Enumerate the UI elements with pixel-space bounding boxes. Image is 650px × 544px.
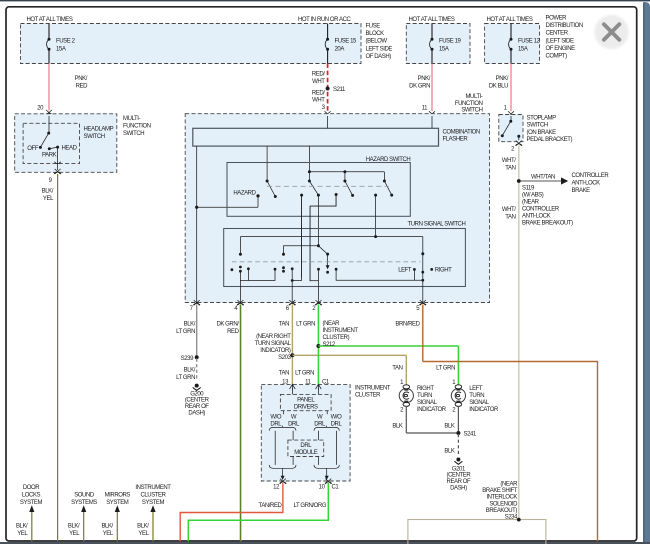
svg-text:DRIVERS: DRIVERS (294, 404, 318, 410)
svg-text:FUSE 19: FUSE 19 (439, 39, 461, 45)
svg-text:TURN: TURN (469, 393, 484, 399)
svg-text:BLK/: BLK/ (184, 322, 196, 328)
svg-text:RED: RED (76, 84, 88, 90)
svg-text:(NEAR: (NEAR (522, 200, 540, 206)
svg-text:(CENTER: (CENTER (447, 473, 472, 479)
svg-text:SWITCH: SWITCH (84, 134, 105, 140)
svg-text:TURN: TURN (417, 393, 432, 399)
svg-text:BLOCK: BLOCK (366, 31, 385, 37)
svg-text:HAZARD: HAZARD (233, 191, 256, 197)
svg-text:SYSTEM: SYSTEM (20, 500, 43, 506)
svg-text:INTERLOCK: INTERLOCK (486, 495, 517, 501)
svg-text:15A: 15A (439, 47, 449, 53)
svg-text:OFF: OFF (27, 146, 38, 152)
svg-text:S119: S119 (522, 186, 535, 192)
svg-text:PEDAL BRACKET): PEDAL BRACKET) (527, 137, 573, 143)
svg-text:MODULE: MODULE (294, 450, 318, 456)
svg-text:TURN SIGNAL SWITCH: TURN SIGNAL SWITCH (408, 221, 466, 227)
svg-text:LT GRN: LT GRN (295, 371, 314, 377)
svg-text:BLK/: BLK/ (184, 368, 196, 374)
svg-text:BLK: BLK (444, 424, 454, 430)
svg-text:REAR OF: REAR OF (185, 404, 209, 410)
svg-text:CLUSTER: CLUSTER (140, 492, 166, 498)
svg-text:STOPLAMP: STOPLAMP (527, 115, 557, 121)
svg-text:BREAKOUT): BREAKOUT) (486, 508, 518, 514)
svg-text:BRAKE BREAKOUT): BRAKE BREAKOUT) (522, 221, 573, 227)
svg-text:S241: S241 (464, 432, 477, 438)
svg-text:REAR OF: REAR OF (447, 479, 471, 485)
svg-text:15A: 15A (518, 47, 528, 53)
svg-text:SWITCH: SWITCH (461, 108, 482, 114)
svg-text:INDICATOR: INDICATOR (417, 407, 447, 413)
svg-text:LOCKS: LOCKS (22, 492, 41, 498)
svg-text:HOT AT ALL TIMES: HOT AT ALL TIMES (409, 17, 455, 23)
svg-text:W/O: W/O (331, 415, 342, 421)
svg-text:CLUSTER: CLUSTER (355, 393, 381, 399)
svg-text:20A: 20A (335, 47, 345, 53)
svg-text:LEFT: LEFT (398, 268, 412, 274)
svg-text:FUNCTION: FUNCTION (123, 123, 151, 129)
svg-text:INSTRUMENT: INSTRUMENT (323, 328, 359, 334)
svg-text:MULTI-: MULTI- (465, 94, 482, 100)
svg-text:POWER: POWER (546, 16, 568, 22)
svg-text:YEL: YEL (138, 531, 149, 537)
svg-text:FLASHER: FLASHER (443, 137, 469, 143)
svg-text:(W/ ABS): (W/ ABS) (522, 193, 544, 199)
svg-text:FUSE 12: FUSE 12 (518, 39, 540, 45)
svg-text:WHT/TAN: WHT/TAN (531, 175, 555, 181)
svg-text:SYSTEM: SYSTEM (106, 500, 129, 506)
svg-text:C1: C1 (332, 485, 340, 491)
svg-text:OF ENGINE: OF ENGINE (546, 46, 576, 52)
svg-text:(NEAR: (NEAR (323, 321, 341, 327)
svg-text:LT GRN: LT GRN (176, 375, 195, 381)
svg-text:DK GRN/: DK GRN/ (216, 322, 239, 328)
svg-text:WHT/: WHT/ (502, 158, 516, 164)
svg-text:MIRRORS: MIRRORS (105, 493, 131, 499)
svg-text:TAN: TAN (505, 165, 515, 171)
svg-text:DRL: DRL (288, 421, 300, 427)
svg-text:CENTER: CENTER (546, 31, 569, 37)
svg-text:(BELOW: (BELOW (366, 39, 388, 45)
svg-text:TAN: TAN (505, 214, 515, 220)
svg-text:(NEAR: (NEAR (500, 482, 518, 488)
svg-text:BLK/: BLK/ (42, 189, 54, 195)
svg-text:PNK/: PNK/ (496, 76, 509, 82)
svg-text:RIGHT: RIGHT (417, 386, 434, 392)
svg-text:RED/: RED/ (312, 72, 325, 78)
svg-text:WHT: WHT (312, 98, 325, 104)
svg-text:BRAKE: BRAKE (572, 188, 591, 194)
svg-text:HOT AT ALL TIMES: HOT AT ALL TIMES (27, 17, 73, 23)
svg-text:RIGHT: RIGHT (435, 268, 452, 274)
svg-text:LEFT: LEFT (469, 386, 483, 392)
svg-text:COMPT): COMPT) (546, 54, 568, 60)
svg-text:15A: 15A (56, 47, 66, 53)
svg-text:DK GRN: DK GRN (409, 84, 430, 90)
svg-text:COMBINATION: COMBINATION (443, 129, 480, 135)
svg-text:DOOR: DOOR (23, 485, 40, 491)
svg-text:BLK/: BLK/ (101, 524, 113, 530)
svg-text:FUSE 2: FUSE 2 (56, 39, 76, 45)
svg-text:SYSTEM: SYSTEM (142, 500, 165, 506)
svg-text:BLK/: BLK/ (16, 524, 28, 530)
svg-text:S211: S211 (333, 87, 346, 93)
svg-text:PNK/: PNK/ (75, 76, 88, 82)
svg-text:SIGNAL: SIGNAL (469, 400, 490, 406)
svg-text:INDICATOR: INDICATOR (469, 407, 499, 413)
svg-text:TAN: TAN (279, 322, 289, 328)
svg-text:S212: S212 (323, 342, 336, 348)
svg-text:ANTI-LOCK: ANTI-LOCK (572, 180, 601, 186)
svg-text:WHT/: WHT/ (502, 207, 516, 213)
svg-text:INSTRUMENT: INSTRUMENT (355, 385, 391, 391)
svg-text:BLK/: BLK/ (137, 524, 149, 530)
svg-text:DISTRIBUTION: DISTRIBUTION (546, 23, 583, 29)
svg-text:INSTRUMENT: INSTRUMENT (135, 485, 171, 491)
svg-text:RED/: RED/ (312, 91, 325, 97)
svg-text:DRL: DRL (331, 421, 343, 427)
svg-text:G201: G201 (452, 466, 466, 472)
svg-text:W: W (317, 415, 323, 421)
svg-text:YEL: YEL (69, 531, 80, 537)
svg-text:ANTI-LOCK: ANTI-LOCK (522, 214, 551, 220)
svg-text:BLK: BLK (444, 449, 454, 455)
svg-text:DASH): DASH) (188, 410, 205, 416)
svg-text:WHT: WHT (312, 79, 325, 85)
svg-text:BLK: BLK (392, 424, 402, 430)
svg-text:LT GRN: LT GRN (296, 322, 315, 328)
svg-text:LEFT SIDE: LEFT SIDE (366, 46, 393, 52)
svg-text:(LEFT SIDE: (LEFT SIDE (546, 38, 574, 44)
svg-text:MULTI-: MULTI- (123, 116, 140, 122)
svg-text:FUSE: FUSE (366, 24, 381, 30)
svg-text:S203: S203 (278, 355, 291, 361)
svg-text:PNK/: PNK/ (418, 76, 431, 82)
svg-text:SWITCH: SWITCH (527, 123, 548, 129)
svg-text:HEADLAMP: HEADLAMP (84, 127, 114, 133)
svg-text:DRL: DRL (270, 421, 282, 427)
svg-text:(CENTER: (CENTER (185, 398, 210, 404)
svg-text:CONTROLLER: CONTROLLER (572, 173, 610, 179)
svg-text:BRAKE SHIFT: BRAKE SHIFT (482, 488, 517, 494)
svg-text:S239: S239 (181, 356, 194, 362)
svg-text:TAN/RED: TAN/RED (259, 503, 283, 509)
svg-text:TURN SIGNAL: TURN SIGNAL (255, 341, 292, 347)
svg-text:HEAD: HEAD (62, 146, 78, 152)
svg-text:BRN/RED: BRN/RED (395, 322, 420, 328)
svg-text:(ON BRAKE: (ON BRAKE (527, 130, 557, 136)
svg-text:DRL: DRL (300, 443, 312, 449)
svg-text:HOT IN RUN OR ACC: HOT IN RUN OR ACC (298, 17, 352, 23)
svg-text:FUSE 15: FUSE 15 (335, 39, 357, 45)
svg-text:YEL: YEL (17, 531, 28, 537)
svg-text:LT GRN: LT GRN (176, 329, 195, 335)
svg-text:RED: RED (227, 329, 239, 335)
svg-text:PANEL: PANEL (297, 398, 315, 404)
svg-text:HOT AT ALL TIMES: HOT AT ALL TIMES (487, 17, 533, 23)
svg-text:DASH): DASH) (450, 486, 467, 492)
svg-text:TAN: TAN (392, 366, 402, 372)
svg-text:BLK/: BLK/ (68, 524, 80, 530)
svg-text:DRL: DRL (314, 421, 326, 427)
svg-text:CONTROLLER: CONTROLLER (522, 207, 560, 213)
svg-text:LT GRN/ORG: LT GRN/ORG (294, 503, 327, 509)
svg-text:(NEAR RIGHT: (NEAR RIGHT (256, 334, 291, 340)
svg-text:LT GRN: LT GRN (436, 366, 455, 372)
svg-text:SOLENOID: SOLENOID (489, 501, 518, 507)
svg-text:TAN: TAN (279, 371, 289, 377)
svg-text:YEL: YEL (103, 531, 114, 537)
svg-text:YEL: YEL (43, 196, 54, 202)
svg-text:CLUSTER): CLUSTER) (323, 335, 350, 341)
svg-text:SWITCH: SWITCH (123, 131, 144, 137)
svg-text:SIGNAL: SIGNAL (417, 400, 438, 406)
svg-text:FUNCTION: FUNCTION (455, 101, 483, 107)
svg-text:W: W (291, 415, 297, 421)
svg-text:SYSTEMS: SYSTEMS (71, 500, 97, 506)
svg-text:PARK: PARK (42, 152, 57, 158)
svg-text:DK BLU: DK BLU (489, 84, 508, 90)
svg-text:OF DASH): OF DASH) (366, 54, 392, 60)
svg-text:W/O: W/O (270, 415, 281, 421)
svg-text:INDICATOR): INDICATOR) (260, 348, 291, 354)
svg-text:G200: G200 (190, 391, 204, 397)
svg-text:SOUND: SOUND (74, 493, 95, 499)
